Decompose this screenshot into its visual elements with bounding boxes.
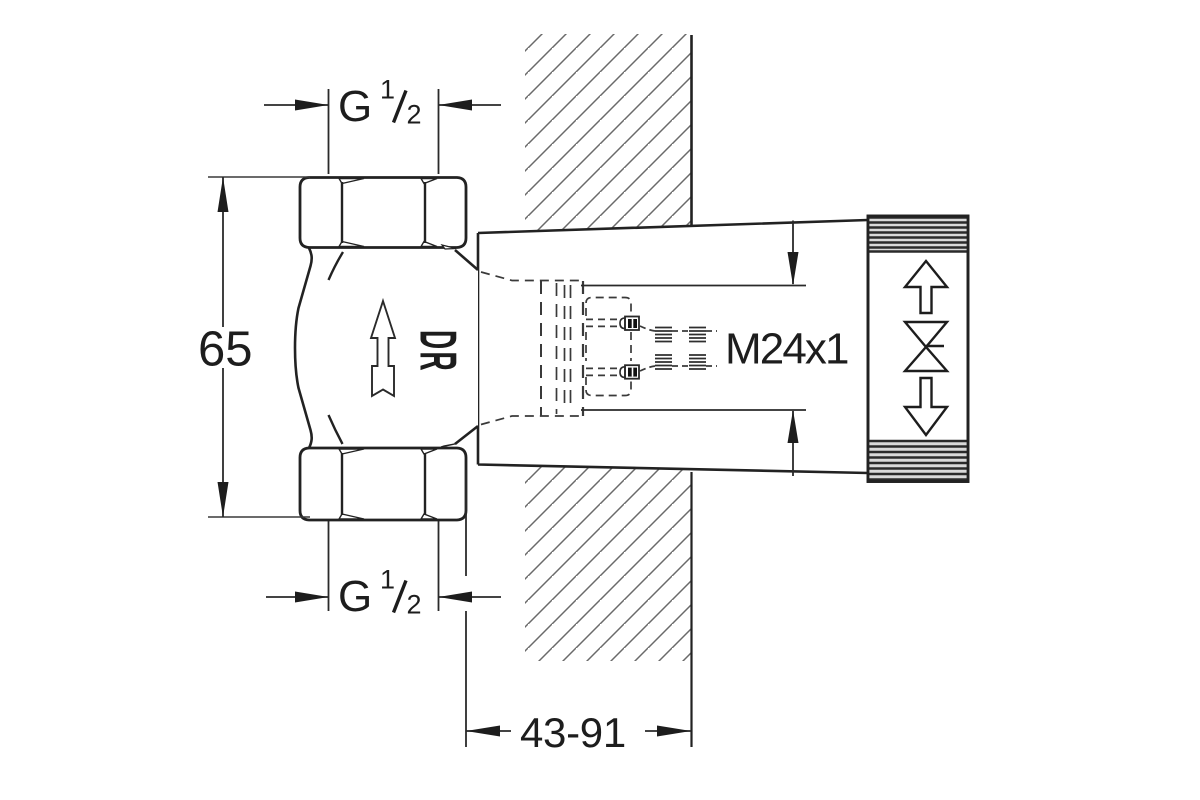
- svg-text:DR: DR: [409, 330, 467, 373]
- svg-text:1: 1: [380, 75, 395, 105]
- svg-text:1: 1: [380, 565, 395, 595]
- svg-text:2: 2: [407, 100, 422, 130]
- svg-text:65: 65: [198, 323, 253, 377]
- svg-text:G: G: [338, 572, 372, 621]
- svg-text:M24x1: M24x1: [725, 325, 848, 374]
- svg-text:2: 2: [407, 590, 422, 620]
- svg-text:43-91: 43-91: [520, 709, 626, 756]
- svg-text:G: G: [338, 82, 372, 131]
